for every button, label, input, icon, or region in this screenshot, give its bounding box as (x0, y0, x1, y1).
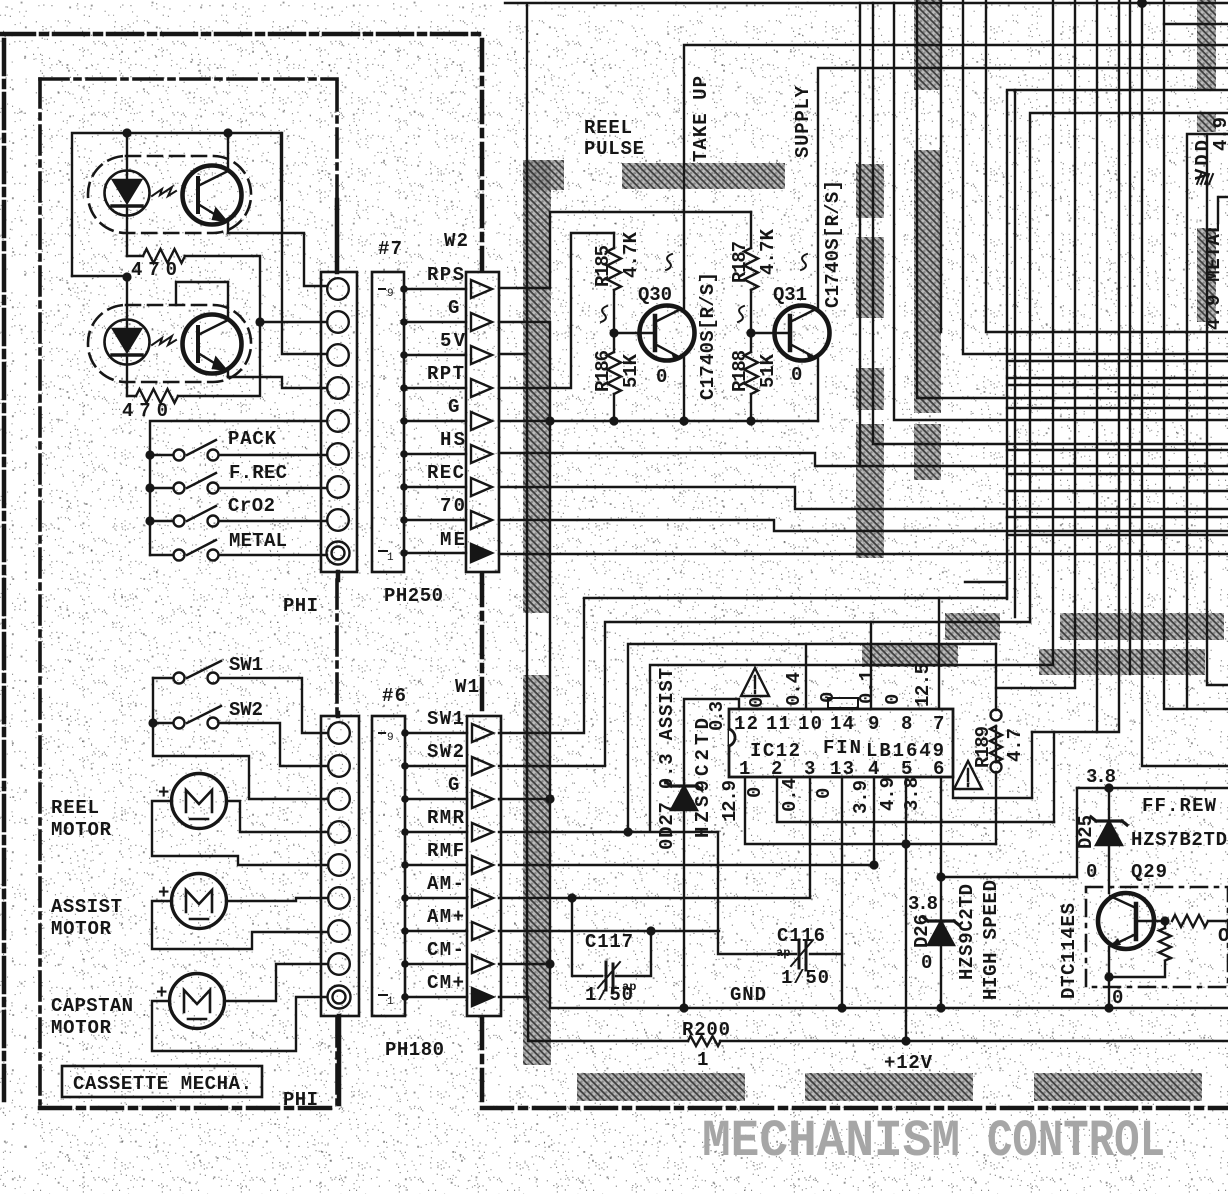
svg-text:Q29: Q29 (1131, 861, 1167, 883)
svg-text:51K: 51K (620, 353, 642, 388)
svg-text:RMR: RMR (427, 807, 465, 829)
node: RMR/D27 riser junction (623, 827, 632, 836)
wire: drop x894 corner y420 (894, 3, 1228, 420)
opto1 light arrow (152, 187, 176, 196)
net squiggle (Q30 collector) (666, 254, 672, 270)
resistor R200 (688, 1036, 721, 1046)
wire: corner x1007 y90 (1007, 90, 1228, 599)
wire: switch common bus to G row5 (150, 421, 327, 555)
svg-text:0.3: 0.3 (706, 701, 728, 731)
node: CM- row x550 (545, 959, 554, 968)
outer cassette-mecha dash-dot border (0, 34, 481, 1100)
motor REEL M1 (172, 774, 227, 829)
svg-text:RPS: RPS (427, 264, 464, 286)
header W2 with buffer triangles (466, 272, 499, 572)
svg-text:G: G (448, 297, 459, 319)
svg-text:R187: R187 (729, 241, 751, 283)
resistor R189 with terminal rings (990, 644, 1002, 844)
svg-text:SW2: SW2 (229, 699, 263, 721)
svg-text:9: 9 (387, 288, 394, 300)
svg-text:PH180: PH180 (385, 1039, 444, 1061)
resistor R (Q29 base-emitter) (1109, 921, 1171, 977)
wire: G-row loop (none) RMR loop riser x628 y644 (628, 644, 996, 832)
svg-text:4.7K: 4.7K (757, 228, 779, 275)
svg-text:11: 11 (766, 713, 790, 735)
svg-text:REC: REC (427, 462, 464, 484)
svg-text:0.4: 0.4 (779, 778, 801, 812)
svg-text:6: 6 (933, 758, 944, 780)
wire: D27 anode loop x684 y699 to pin12 (684, 699, 739, 780)
svg-text:3.8: 3.8 (1086, 766, 1116, 788)
wire: 70 row with step (499, 520, 1228, 531)
svg-text:12.5: 12.5 (912, 663, 934, 707)
svg-text:0: 0 (1086, 861, 1097, 883)
svg-text:FIN: FIN (823, 737, 861, 759)
node: opto1 top-left junction (122, 128, 131, 137)
wire: RPT row to R185 top (499, 233, 614, 388)
transistor Q30 (614, 306, 695, 362)
svg-text:HZS9C2TD: HZS9C2TD (956, 884, 978, 980)
wire: drop x1015 (1014, 90, 1016, 617)
svg-text:MOTOR: MOTOR (51, 819, 112, 841)
svg-text:9: 9 (387, 732, 394, 744)
node: Q30 base (609, 328, 618, 337)
wire: ME row (499, 553, 1228, 555)
svg-text:G: G (448, 396, 459, 418)
svg-text:CONTROL: CONTROL (987, 1112, 1165, 1171)
label REEL MOTOR (51, 797, 112, 841)
svg-text:4.9: 4.9 (1210, 117, 1228, 151)
pin labels SW1 SW2 G RMR RMF AM- AM+ CM- CM+ (427, 708, 465, 994)
wire: Q31 emitter to G bus end (817, 358, 819, 421)
svg-text:R186: R186 (592, 350, 614, 392)
opto2 light arrow (152, 336, 176, 345)
svg-text:3.8: 3.8 (901, 777, 923, 811)
svg-text:Q31: Q31 (773, 284, 807, 306)
wire: G row3 to x550 riser (499, 798, 550, 800)
pin labels RPS G 5V RPT G HS REC 70 ME (427, 264, 466, 551)
svg-text:R200: R200 (682, 1019, 730, 1041)
svg-text:G: G (448, 774, 459, 796)
wire: pin2 drop and rail y822 (777, 777, 1054, 822)
wire: pin5 drop to +12V bus (905, 777, 907, 1041)
jumper box above pin14 (828, 698, 858, 708)
svg-text:AM+: AM+ (427, 906, 464, 928)
svg-text:PH250: PH250 (384, 585, 443, 607)
resistor R186 (607, 333, 621, 421)
node: opto1 top-right junction (223, 128, 232, 137)
wire: GND bus y1008 (550, 1007, 1228, 1009)
switch METAL (150, 540, 327, 561)
wire: 5V row3 to riser (499, 353, 527, 355)
wire: REC row with step (499, 487, 1228, 509)
wire: 470 node to G pin circle row2 (260, 321, 327, 323)
node: G row3 x550 (545, 794, 554, 803)
wire: 5V top rail (y3) with riser x527 (505, 3, 1228, 354)
node: Q29 emitter-resistor junction (1104, 972, 1113, 981)
wire: RMR loop riser x650 y665 (499, 665, 1053, 832)
svg-text:SW1: SW1 (427, 708, 464, 730)
svg-text:7: 7 (933, 713, 944, 735)
transistor Q31 (751, 306, 830, 362)
wire: drop x1053 to RMR loop (1052, 0, 1054, 664)
svg-text:1: 1 (387, 552, 394, 564)
phototransistor PT1 (183, 133, 242, 233)
svg-text:#6: #6 (382, 685, 406, 707)
wire: pin1 drop and rail y844 (745, 777, 996, 844)
node: AM- to C117 junction (567, 893, 576, 902)
svg-text:R189: R189 (972, 726, 994, 768)
node: pin6 on GND bus (936, 1003, 945, 1012)
wire: Q29 emitter to GND bus (1108, 947, 1110, 1008)
svg-text:PACK: PACK (228, 428, 277, 450)
node: top rail x1142 (1137, 0, 1147, 8)
svg-text:#7: #7 (378, 238, 402, 260)
wire: opto2 top from box-left (72, 275, 127, 277)
wire: PT1 emitter to RPS pin circle (228, 233, 327, 286)
wire: D25 rail y788 (1077, 787, 1228, 789)
node: Q30 emitter on G bus (679, 416, 688, 425)
wires PH250 body to header W2 (400, 285, 466, 557)
svg-text:MOTOR: MOTOR (51, 1017, 112, 1039)
svg-text:PHI: PHI (283, 1089, 318, 1111)
connector PH250 body (372, 272, 404, 572)
svg-text:12: 12 (734, 713, 758, 735)
opto1 dashed stadium outline (88, 156, 251, 233)
svg-text:HZS7B2TD: HZS7B2TD (1131, 829, 1227, 851)
zener D26 (923, 917, 959, 945)
svg-text:0: 0 (813, 788, 835, 799)
svg-text:W2: W2 (444, 230, 468, 252)
transistor Q29 (1098, 893, 1165, 949)
svg-text:4.7K: 4.7K (620, 231, 642, 278)
resistor 470 (lower) (127, 322, 260, 403)
wire: drop x1207 corner y685 (1207, 134, 1228, 685)
svg-text:4.7: 4.7 (1004, 728, 1026, 762)
svg-text:ASSIST: ASSIST (51, 896, 122, 918)
svg-text:ap: ap (622, 980, 636, 994)
switch SW1 (153, 661, 327, 733)
node: pin4 on RMF rail (869, 860, 878, 869)
switch F.REC (150, 473, 327, 494)
svg-text:0: 0 (744, 787, 766, 798)
wire: VDD box (1187, 134, 1228, 709)
wire: RPS row to Q31 bias rail y212 (499, 212, 751, 288)
node: opto2 top junction (122, 272, 131, 281)
svg-text:FF.REW: FF.REW (1142, 795, 1217, 817)
wire: pin6 drop (940, 777, 942, 1008)
node: R188 bottom on G bus (746, 416, 755, 425)
wire: opto supply riser to 5V row3 (282, 133, 327, 354)
warning triangle (pin6) (954, 761, 982, 789)
svg-text:10: 10 (798, 713, 822, 735)
svg-text:Q30: Q30 (638, 284, 672, 306)
label IC12 FIN LB1649 (750, 737, 944, 762)
svg-text:12.9: 12.9 (719, 780, 741, 822)
svg-text:TAKE UP: TAKE UP (690, 76, 712, 162)
node: pin5 rail y844 (901, 839, 910, 848)
node: G bus x550 (545, 416, 554, 425)
resistor R185 (607, 233, 621, 333)
warning triangle (pin12) (741, 668, 769, 696)
net squiggle (Q31 collector) (801, 254, 807, 270)
svg-text:1: 1 (387, 996, 394, 1008)
node: pin13 on GND bus (837, 1003, 846, 1012)
node: +12V bus pin5 (901, 1036, 910, 1045)
inner dash-dot box (40, 79, 337, 1104)
bus horizontals right grid (1007, 361, 1228, 535)
wire: drop x1142 corner y766 (1142, 3, 1228, 766)
wire: pin9 stub (870, 622, 872, 709)
svg-text:0: 0 (656, 366, 667, 388)
wire: PT2 collector top link (176, 282, 228, 305)
svg-text:D25: D25 (1075, 815, 1097, 849)
wire: pin13 drop to GND bus (841, 777, 843, 1008)
svg-text:MECHANISM: MECHANISM (702, 1112, 960, 1171)
node: Q29 base node (1160, 916, 1169, 925)
svg-text:8: 8 (901, 713, 912, 735)
label ASSIST MOTOR (51, 896, 122, 940)
wire: drop x963 corner y354 (963, 0, 1228, 354)
wire: G bus row5 y421 (499, 420, 818, 422)
wire: drop x917 corner y398 (917, 0, 1228, 398)
wire: +12V bus y1041 from CM+ riser (499, 997, 1228, 1041)
zener D27 (666, 780, 702, 832)
node: bus dot CrO2 (145, 516, 154, 525)
svg-text:3.9: 3.9 (850, 780, 872, 814)
svg-text:PULSE: PULSE (584, 138, 644, 160)
coil symbol under VDD (1197, 174, 1213, 184)
node: D25 top (1104, 783, 1113, 792)
wire: drop x1097 (1096, 0, 1098, 732)
svg-text:C117: C117 (585, 931, 633, 953)
wire: reel motor terminals (152, 801, 327, 865)
node: AM+ to C117 junction (646, 926, 655, 935)
svg-text:DTC114ES: DTC114ES (1058, 903, 1080, 999)
node: bus dot F.REC (145, 483, 154, 492)
wire: G net riser x550 (499, 322, 550, 1008)
node: R186 bottom on G bus (609, 416, 618, 425)
svg-text:1/50: 1/50 (781, 967, 829, 989)
opto-interrupter PH1 outer wiring box (72, 133, 281, 276)
wire: staircase x1032 (1031, 732, 1033, 798)
svg-text:RMF: RMF (427, 840, 464, 862)
wire: drop x1164 corner y709 (1164, 0, 1228, 709)
svg-text:0: 0 (882, 694, 904, 705)
zener D25 (1091, 788, 1127, 893)
svg-text:R188: R188 (729, 350, 751, 392)
svg-text:0.1: 0.1 (856, 670, 878, 704)
wire: D26 node to D25 branch y877 (941, 788, 1077, 877)
wire: SW1 loop riser x584 y598 (499, 582, 1007, 733)
wire: drop x941 top section (940, 0, 942, 332)
IC12 bottom pin numbers (739, 758, 944, 780)
net squiggle (R187) (738, 306, 744, 322)
svg-text:0.4: 0.4 (783, 672, 805, 706)
motor CAPSTAN M3 (170, 974, 225, 1029)
capacitor C116 (791, 940, 813, 970)
svg-text:REEL: REEL (584, 117, 632, 139)
box CASSETTE MECHA. (62, 1066, 262, 1097)
capacitor C117 (572, 898, 651, 992)
wire: x527 riser lower section to +12V rail (526, 354, 528, 999)
svg-text:51K: 51K (757, 353, 779, 388)
label REEL PULSE (584, 117, 644, 160)
svg-text:SW1: SW1 (229, 654, 263, 676)
connector PH180 pin-circle column (321, 713, 359, 1104)
box fragment right edge (1218, 197, 1228, 223)
svg-text:3.8: 3.8 (908, 893, 938, 915)
wire: HS row with step (499, 453, 1228, 466)
svg-text:HIGH SPEED: HIGH SPEED (980, 880, 1002, 1000)
wire: CM- row to x550 riser (499, 963, 550, 965)
svg-text:0: 0 (791, 364, 802, 386)
wire: drop x1075 corner y688 (996, 0, 1075, 688)
svg-text:SUPPLY: SUPPLY (792, 85, 814, 158)
svg-text:MOTOR: MOTOR (51, 918, 112, 940)
switch SW2 (153, 706, 327, 766)
svg-text:0: 0 (746, 697, 768, 708)
wire: Q30 collector TAKE UP riser (684, 45, 1228, 309)
wire: top-right corner rail y24 (1164, 23, 1228, 25)
motor ASSIST M2 (172, 874, 227, 929)
wire: under-IC rail y798 (953, 777, 1032, 798)
IC U-IC12 LB1649 body (729, 709, 953, 777)
dashed box Q29 (1086, 887, 1228, 987)
svg-text:W1: W1 (455, 676, 479, 698)
svg-text:F.REC: F.REC (229, 462, 287, 484)
opto2 dashed stadium outline (88, 305, 251, 382)
grey highlight bar vertical left (x527 area) (523, 0, 1224, 1101)
svg-text:5V: 5V (440, 330, 466, 352)
wire: drop x1119 corner y732 (1032, 0, 1119, 732)
wire: RMR loop to C116 (718, 832, 842, 954)
resistor R188 (744, 333, 758, 421)
connector PH180 body (372, 716, 405, 1016)
svg-text:1: 1 (697, 1049, 708, 1071)
LED D-photo2 (105, 277, 150, 396)
svg-text:CM+: CM+ (427, 972, 464, 994)
svg-text:+12V: +12V (884, 1052, 933, 1074)
svg-text:R185: R185 (592, 245, 614, 287)
resistor 470 (upper) (127, 249, 260, 322)
wire: assist motor terminals (152, 898, 327, 949)
svg-text:GND: GND (730, 984, 766, 1006)
wire: pin4 drop to RMF rail (499, 777, 874, 865)
switch CrO2 (150, 506, 327, 527)
wire: PT2 emitter to RPT row4 (228, 377, 327, 388)
svg-text:C116: C116 (777, 925, 825, 947)
switch PACK (150, 440, 327, 461)
node: Q31 base (746, 328, 755, 337)
resistor R187 (744, 212, 758, 333)
svg-text:RPT: RPT (427, 363, 464, 385)
svg-text:470: 470 (122, 400, 168, 422)
svg-text:470: 470 (131, 259, 177, 281)
svg-text:14: 14 (830, 713, 854, 735)
svg-text:CASSETTE MECHA.: CASSETTE MECHA. (73, 1073, 252, 1095)
node: pin6 D25 branch (936, 872, 945, 881)
wire: SW common to G row (153, 678, 327, 799)
label MECHANISM CONTROL (702, 1112, 1165, 1171)
node: Q29 emitter on GND bus (1104, 1003, 1113, 1012)
svg-text:C1740S[R/S]: C1740S[R/S] (822, 180, 844, 308)
wire: drop x853 to HS line (859, 3, 861, 466)
svg-text:CM-: CM- (427, 939, 464, 961)
IC12 top pin numbers (734, 713, 944, 735)
node: G junction of both 470 resistors (255, 317, 264, 326)
svg-text:9: 9 (868, 713, 879, 735)
wire: Q31 collector SUPPLY riser (818, 68, 1228, 309)
node: SW2 common dot (148, 718, 157, 727)
svg-text:AM-: AM- (427, 873, 464, 895)
svg-text:C1740S[R/S]: C1740S[R/S] (697, 272, 719, 400)
wire: Q30 emitter to G bus (683, 358, 685, 421)
LED D-photo1 (105, 133, 150, 256)
wire: staircase x1054 (1053, 732, 1055, 822)
node: bus dot PACK (145, 450, 154, 459)
wire: pin7 stub (938, 598, 940, 709)
svg-text:O: O (1218, 925, 1228, 947)
wires PH180 body to header W1 (401, 729, 467, 1001)
wire: pin10 stub to R189 line (805, 644, 807, 709)
svg-text:PHI: PHI (283, 595, 318, 617)
svg-text:METAL: METAL (229, 530, 287, 552)
header W1 with buffer triangles (467, 716, 501, 1016)
wire: SW2 loop riser x605 y622 (499, 622, 1030, 766)
svg-text:CrO2: CrO2 (228, 495, 275, 517)
connector PH250 pin-circle column (321, 200, 357, 580)
svg-text:ap: ap (776, 946, 790, 960)
wire: drop x873 corner y444 (873, 3, 1228, 444)
wire: pin3 drop to AM- rail (499, 777, 810, 898)
svg-text:REEL: REEL (51, 797, 99, 819)
wire: AM+ rail to C116 loop (499, 930, 719, 932)
wire: capstan motor terminals (152, 964, 327, 1051)
phototransistor PT2 (183, 282, 242, 377)
wire: corner x1030 y113 (1030, 113, 1228, 622)
wire: drop x1130 (1129, 0, 1131, 674)
resistor R (Q29 base) (1172, 915, 1228, 927)
svg-text:0: 0 (1112, 987, 1123, 1009)
label CAPSTAN MOTOR (51, 995, 133, 1039)
wire: drop x986 corner y332 (986, 0, 1228, 332)
svg-text:4.9: 4.9 (877, 777, 899, 811)
wire: D27 cathode down to GND bus (683, 832, 685, 1008)
svg-text:CAPSTAN: CAPSTAN (51, 995, 133, 1017)
net squiggle (R185) (601, 306, 607, 322)
svg-text:0: 0 (921, 952, 932, 974)
svg-text:SW2: SW2 (427, 741, 464, 763)
svg-text:0D27 0.3 ASSIST: 0D27 0.3 ASSIST (656, 668, 678, 850)
node: D27 on GND bus (679, 1003, 688, 1012)
